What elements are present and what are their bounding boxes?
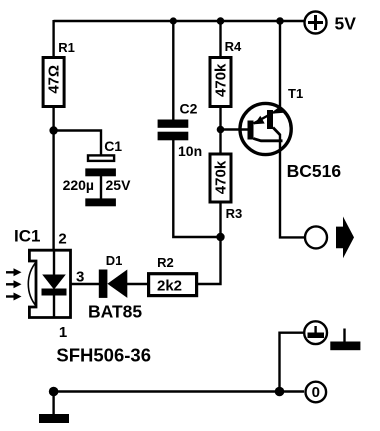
Q2 collector [273, 128, 280, 135]
svg-text:D1: D1 [106, 253, 123, 268]
wire C2 bottom lead [173, 140, 220, 237]
wire R4 top lead [219, 21, 221, 57]
wire IC1 pin3 [71, 283, 100, 285]
svg-text:IC1: IC1 [14, 227, 40, 246]
svg-text:C1: C1 [104, 138, 122, 154]
terminal chassis [304, 321, 327, 344]
svg-text:2k2: 2k2 [157, 277, 182, 294]
wire R2 to node [196, 237, 221, 284]
terminal 0V [306, 382, 327, 403]
diode D1 [88, 253, 142, 322]
photodiode inside IC1 [53, 252, 55, 276]
svg-text:1: 1 [59, 324, 67, 341]
ground (below C1) [85, 198, 116, 206]
svg-text:0: 0 [312, 384, 320, 401]
svg-text:220µ: 220µ [63, 177, 94, 193]
ground (bottom left) [39, 392, 69, 424]
wire R1 bottom to IC1 pin2 [52, 106, 54, 250]
wire R3 bottom lead [219, 202, 221, 237]
node junction top rail / T1 [276, 17, 284, 25]
node junction R1/C1 [49, 126, 57, 134]
node junction bottom right [275, 387, 285, 397]
wire C2 top lead [172, 21, 174, 120]
node junction top rail / R4 [217, 17, 225, 25]
resistor R3 [210, 154, 242, 221]
svg-text:470k: 470k [213, 63, 230, 97]
svg-text:2: 2 [58, 230, 66, 247]
wire T1 emitter lead [279, 21, 281, 111]
wire top rail +5V [54, 20, 305, 22]
terminal output [305, 226, 327, 248]
resistor R1 [43, 40, 75, 107]
svg-text:C2: C2 [180, 100, 198, 116]
capacitor C1 [63, 138, 132, 199]
wire D1 to R2 [127, 283, 148, 285]
wire R4 to R3 [219, 106, 221, 153]
node junction top rail / C2 [170, 17, 177, 24]
terminal +5V [305, 12, 357, 34]
wire base T1 [221, 128, 249, 130]
output arrow [336, 217, 354, 259]
svg-text:470k: 470k [213, 160, 230, 194]
svg-text:5V: 5V [335, 14, 357, 34]
base bar Q1 [248, 121, 254, 140]
capacitor C2 [158, 100, 203, 159]
node junction base [217, 126, 225, 134]
resistor R4 [210, 39, 242, 107]
svg-text:47Ω: 47Ω [45, 65, 62, 94]
svg-text:10n: 10n [178, 143, 202, 159]
base bar Q2 [267, 110, 273, 129]
chassis ground symbol [330, 329, 360, 351]
svg-text:R2: R2 [157, 255, 174, 270]
wire C1 branch [54, 131, 101, 156]
wire bottom rail [54, 390, 304, 392]
node junction bottom left [49, 387, 59, 397]
svg-text:R4: R4 [225, 39, 242, 54]
wire R1 top lead [52, 20, 54, 56]
wire T1 collector lead [280, 134, 305, 237]
svg-text:BC516: BC516 [287, 161, 342, 181]
IR arrows [6, 271, 15, 273]
svg-text:SFH506-36: SFH506-36 [56, 345, 151, 366]
svg-text:T1: T1 [288, 86, 303, 101]
svg-text:BAT85: BAT85 [88, 302, 142, 322]
svg-text:25V: 25V [106, 177, 132, 193]
Q1 collector [254, 139, 283, 141]
resistor R2 [149, 255, 197, 296]
svg-text:R3: R3 [226, 206, 243, 221]
svg-text:3: 3 [76, 268, 84, 285]
wire chassis terminal riser [280, 333, 305, 392]
transistor T1 [240, 86, 341, 181]
node junction R3/C2/R2 [216, 233, 224, 241]
Q2 emitter [273, 108, 281, 114]
photocoupler IC1 [6, 227, 151, 366]
Q1 emitter [254, 116, 269, 124]
svg-text:R1: R1 [58, 40, 75, 55]
